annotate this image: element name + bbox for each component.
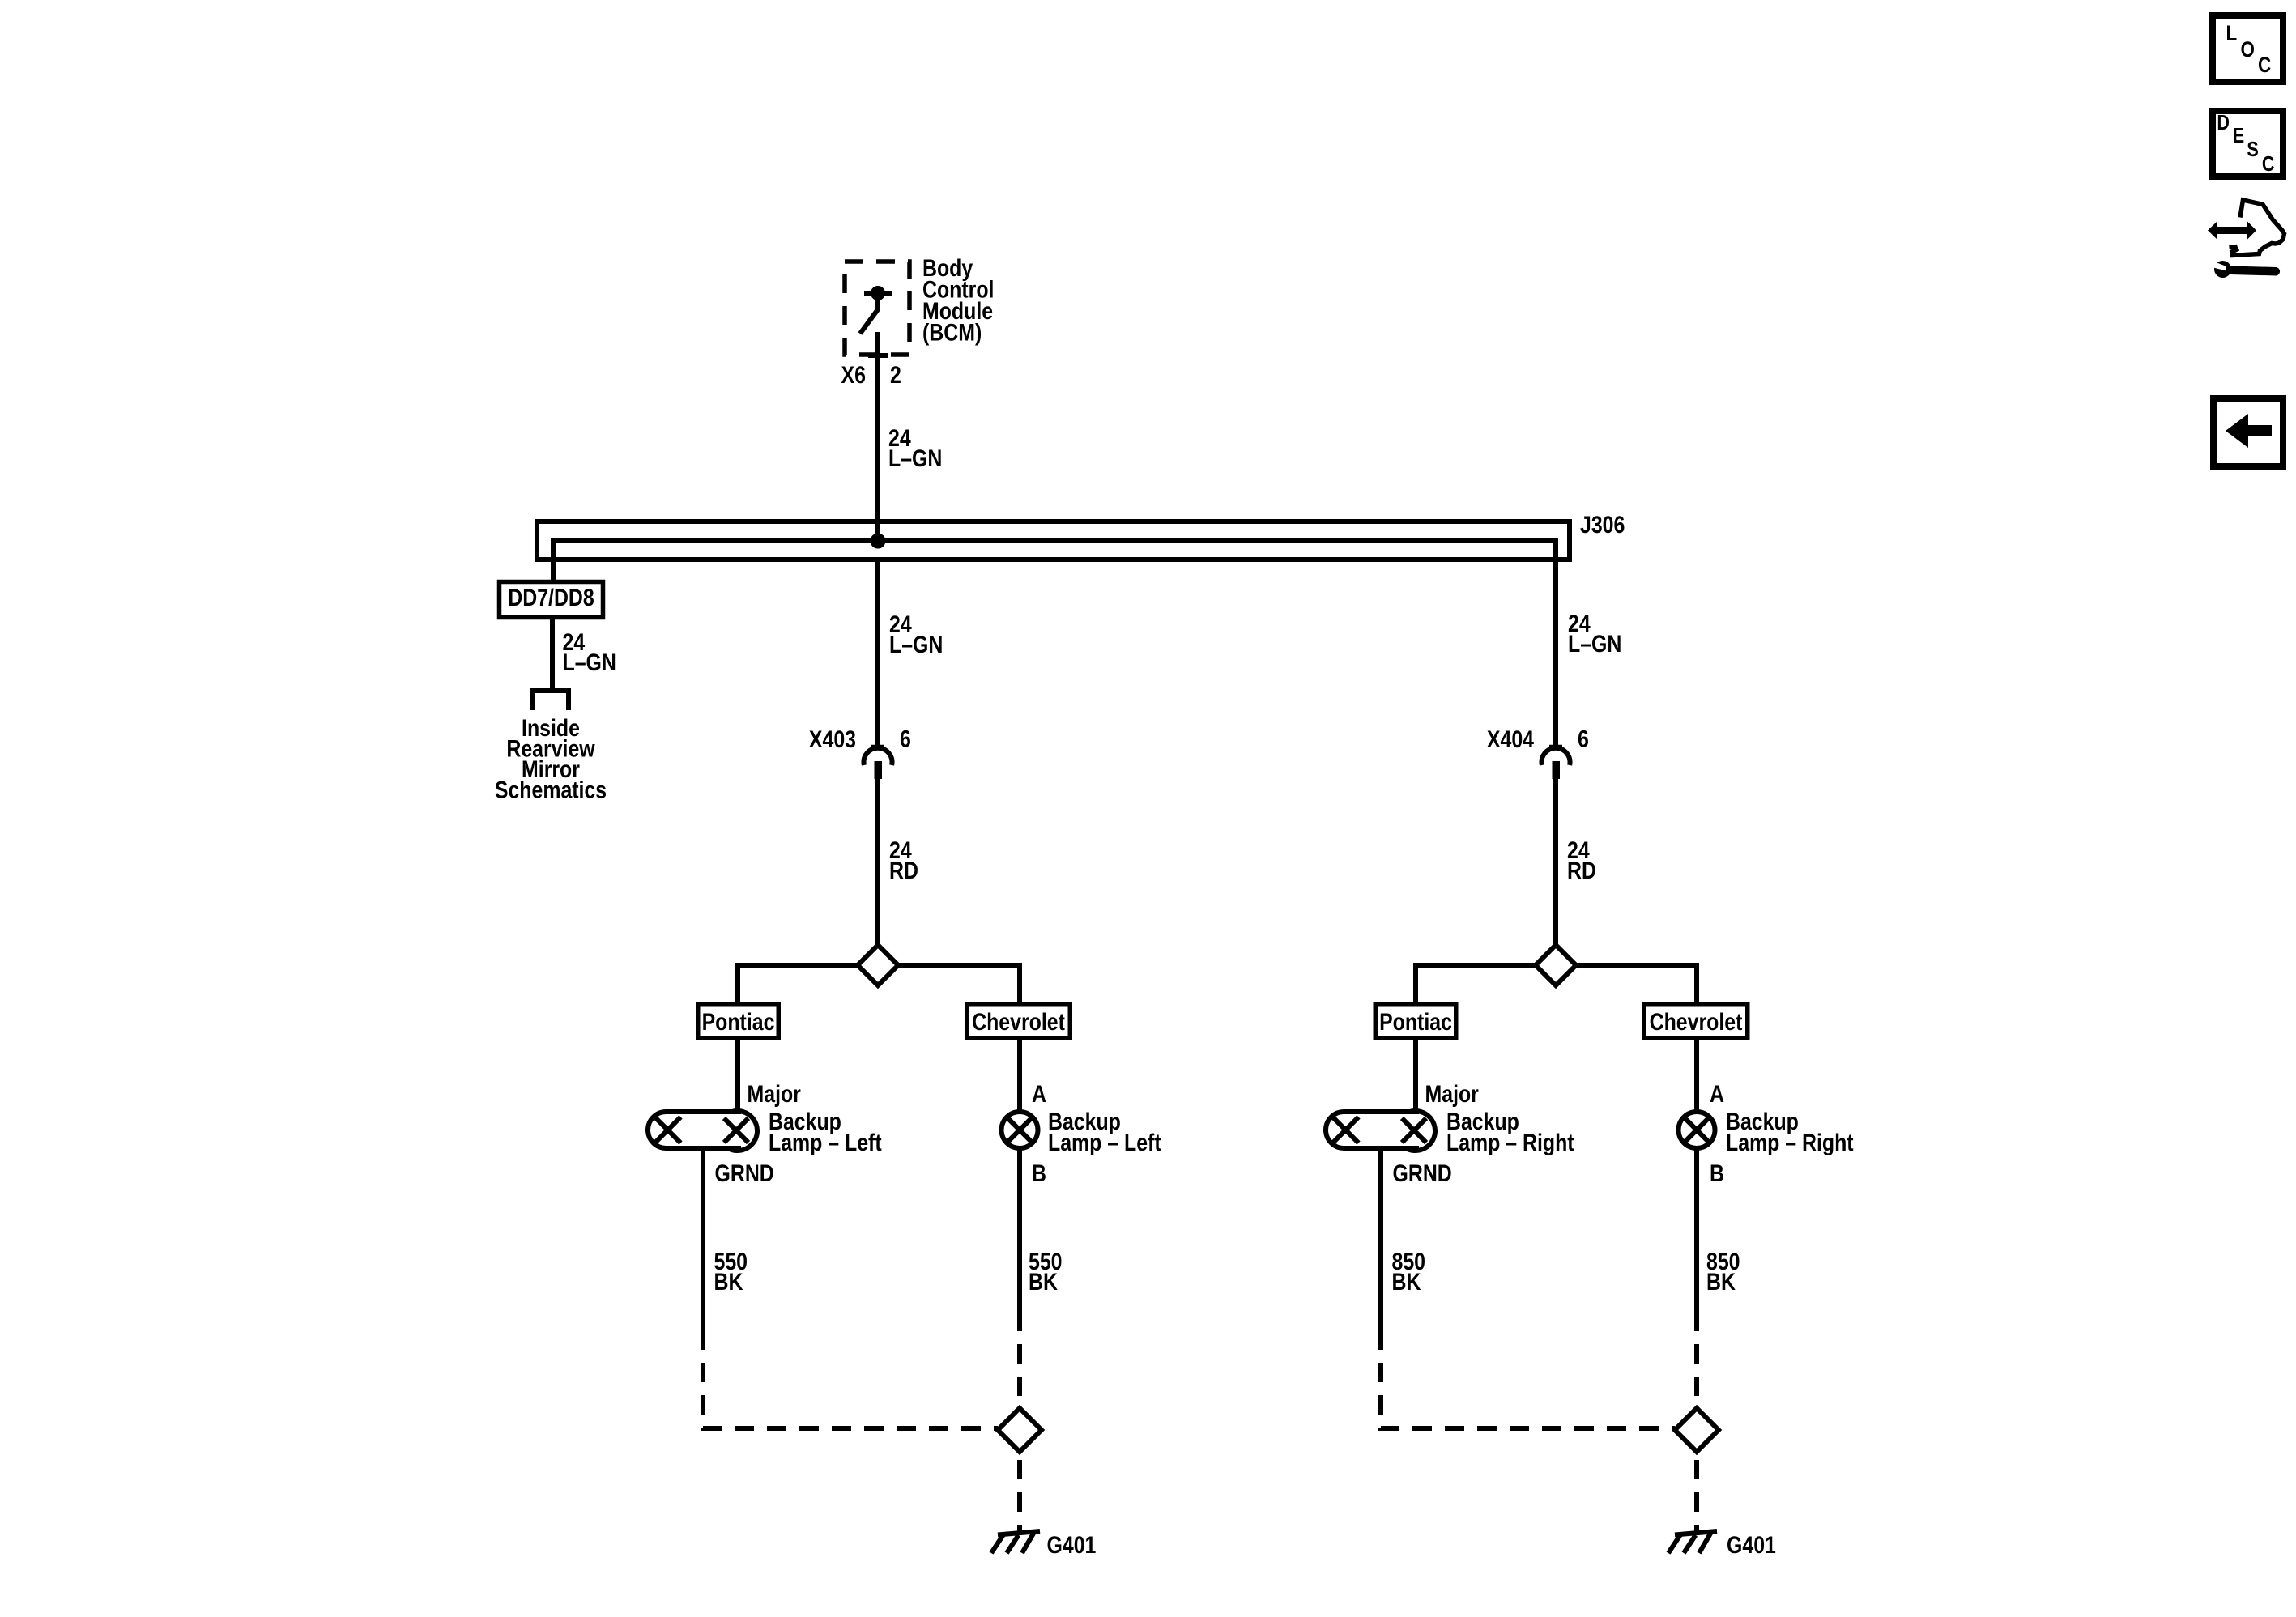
ground symbol G401 (left) [991, 1531, 1040, 1553]
icon: harness outline [2232, 200, 2285, 256]
wire: Chevrolet box to lamp (right) [1694, 1040, 1699, 1112]
wire: dashed down to ground splice diamond (left) [1017, 1331, 1022, 1406]
svg-text:X403: X403 [809, 726, 856, 753]
svg-text:Major: Major [1425, 1080, 1480, 1108]
svg-text:Pontiac: Pontiac [702, 1008, 775, 1036]
wire: Pontiac box to dual lamp (right) [1413, 1040, 1418, 1109]
svg-text:DD7/DD8: DD7/DD8 [508, 584, 594, 611]
lamp: Major Backup Lamp - Left (dual bulb stadium) [648, 1112, 666, 1148]
svg-text:RD: RD [889, 857, 918, 884]
svg-text:L–GN: L–GN [888, 445, 942, 472]
wire: lamp B lead (right, solid) [1694, 1148, 1699, 1331]
wire label 850 BK (left of right pair) [1392, 1248, 1426, 1296]
wire label 550 BK (right of left pair) [1029, 1248, 1063, 1296]
splitter diamond (left branch) [858, 945, 898, 985]
svg-text:G401: G401 [1727, 1531, 1776, 1559]
off-page connector bracket [533, 691, 569, 710]
svg-text:X6: X6 [841, 361, 866, 389]
wire label 850 BK (far right) [1706, 1248, 1740, 1296]
splice pack J306 outer box [537, 521, 1570, 560]
wire: X403 down to splitter diamond [875, 779, 880, 945]
icon: wrench [2209, 260, 2280, 279]
lamp: Backup Lamp - Right (Chevrolet) [1679, 1112, 1715, 1148]
wire: lamp B lead (left, solid) [1017, 1148, 1022, 1331]
connector X403 socket arc [864, 748, 892, 765]
box Chevrolet (left) [967, 1005, 1071, 1039]
svg-text:Lamp – Left: Lamp – Left [769, 1129, 882, 1156]
svg-text:E: E [2233, 124, 2244, 147]
svg-text:6: 6 [900, 725, 911, 752]
connector X404 pin [1553, 761, 1561, 779]
box DD7/DD8 [500, 582, 603, 618]
BCM internal switch junction dot [873, 288, 883, 298]
svg-text:L–GN: L–GN [563, 649, 616, 676]
icon box back-arrow [2213, 398, 2283, 466]
splice pack J306 inner bus bar [553, 541, 1556, 745]
wire: diamond to Chevrolet (left) [898, 965, 1020, 1002]
svg-text:B: B [1032, 1160, 1046, 1187]
wire label 24 RD (left) [889, 836, 918, 884]
svg-text:BK: BK [1392, 1268, 1421, 1296]
svg-text:B: B [1710, 1160, 1724, 1187]
ground splice diamond (right) [1675, 1408, 1719, 1452]
wire label 24 L-GN (center below bus) [889, 611, 943, 658]
svg-text:6: 6 [1578, 725, 1589, 752]
svg-text:A: A [1032, 1080, 1046, 1108]
svg-text:L–GN: L–GN [889, 631, 943, 658]
svg-text:BK: BK [714, 1268, 743, 1296]
ground symbol G401 (right) [1668, 1531, 1717, 1553]
wire: DD7/DD8 down to off-page connector [550, 619, 555, 691]
wire: diamond to Pontiac (left) [738, 965, 858, 1002]
svg-text:RD: RD [1567, 857, 1596, 884]
svg-text:C: C [2258, 53, 2271, 77]
svg-text:GRND: GRND [1393, 1160, 1452, 1187]
wire label 24 L-GN (right tap) [1568, 610, 1621, 657]
wire: diamond to Chevrolet (right) [1576, 965, 1697, 1002]
junction dot on bus bar [873, 536, 884, 547]
lamp: Backup Lamp - Left (Chevrolet) [1002, 1112, 1038, 1148]
wire label 24 RD (right) [1567, 836, 1596, 884]
module: Body Control Module (BCM) dashed box [845, 262, 909, 355]
svg-text:Pontiac: Pontiac [1379, 1008, 1452, 1036]
wire label 24 L-GN (upper) [888, 424, 942, 472]
svg-text:(BCM): (BCM) [922, 318, 982, 346]
label Backup Lamp - Left (Pontiac) [769, 1108, 882, 1156]
svg-text:C: C [2262, 152, 2275, 176]
BCM internal switch bar [864, 291, 892, 296]
box Pontiac (right) [1375, 1005, 1456, 1039]
svg-text:Schematics: Schematics [495, 776, 607, 803]
svg-text:J306: J306 [1580, 511, 1625, 538]
svg-text:BK: BK [1706, 1268, 1736, 1296]
svg-text:Major: Major [748, 1080, 802, 1108]
icon: double-headed arrow [2208, 222, 2256, 240]
svg-text:Lamp – Right: Lamp – Right [1726, 1129, 1854, 1156]
wire: Chevrolet box to lamp (left) [1017, 1040, 1022, 1112]
wire label 550 BK (left) [714, 1248, 748, 1296]
wire: dashed ground run to splice diamond (left) [703, 1350, 998, 1428]
BCM internal switch arm [860, 295, 878, 334]
svg-text:L–GN: L–GN [1568, 630, 1621, 657]
svg-text:Chevrolet: Chevrolet [1650, 1008, 1743, 1036]
svg-text:X404: X404 [1487, 726, 1535, 753]
ground splice diamond (left) [998, 1408, 1042, 1452]
wire: X404 down to splitter diamond [1553, 779, 1558, 945]
box Pontiac (left) [698, 1005, 779, 1039]
splitter diamond (right branch) [1536, 945, 1576, 985]
label: Body Control Module (BCM) [922, 254, 994, 346]
connector X404 socket arc [1542, 748, 1570, 765]
wire: dashed down to ground splice diamond (right) [1694, 1331, 1699, 1406]
svg-text:D: D [2217, 111, 2230, 134]
svg-text:A: A [1710, 1080, 1724, 1108]
wire: dual lamp ground lead (left, solid) [701, 1151, 705, 1350]
wire: BCM pin 2 down to splice J306 [875, 332, 880, 541]
BCM pin 2 tick [868, 353, 888, 358]
svg-text:S: S [2247, 138, 2258, 161]
box Chevrolet (right) [1644, 1005, 1748, 1039]
label Backup Lamp - Right (Pontiac) [1446, 1108, 1574, 1156]
wire: dashed ground run to splice diamond (right) [1381, 1350, 1675, 1428]
wire: splice J306 down to connector X403 [875, 557, 880, 745]
svg-text:BK: BK [1029, 1268, 1058, 1296]
label: Inside Rearview Mirror Schematics [495, 714, 607, 803]
wire: dual lamp ground lead (right, solid) [1378, 1151, 1383, 1350]
wire: Pontiac box to dual lamp (left) [735, 1040, 740, 1109]
svg-text:Lamp – Left: Lamp – Left [1048, 1129, 1161, 1156]
svg-text:L: L [2226, 22, 2238, 45]
connector X403 pin [875, 761, 883, 779]
connector X403 terminal tick [871, 745, 884, 749]
svg-text:O: O [2241, 38, 2255, 62]
connector X404 terminal tick [1549, 745, 1562, 749]
wire: dashed diamond to ground (left) [1017, 1452, 1022, 1533]
lamp: Major Backup Lamp - Right (dual bulb stadium) [1326, 1112, 1344, 1148]
wire: dashed diamond to ground (right) [1694, 1452, 1699, 1533]
svg-text:Chevrolet: Chevrolet [972, 1008, 1065, 1036]
svg-text:GRND: GRND [715, 1160, 774, 1187]
wire: diamond to Pontiac (right) [1416, 965, 1536, 1002]
wire label 24 L-GN (DD7 branch) [563, 628, 616, 676]
svg-text:2: 2 [890, 361, 901, 389]
icon box LOC [2213, 15, 2283, 82]
svg-text:G401: G401 [1047, 1531, 1097, 1559]
svg-text:Lamp – Right: Lamp – Right [1446, 1129, 1574, 1156]
icon box DESC [2213, 111, 2283, 177]
